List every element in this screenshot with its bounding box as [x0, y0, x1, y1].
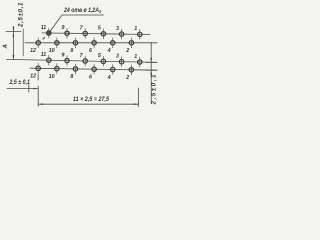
- leader line to hole 11: [49, 15, 62, 33]
- svg-text:1: 1: [134, 54, 137, 60]
- svg-text:11: 11: [41, 52, 47, 58]
- arrow down at row1 tick: [13, 27, 15, 32]
- arrow down right dim: [150, 58, 152, 63]
- svg-text:2,5 ± 0,1: 2,5 ± 0,1: [9, 80, 31, 86]
- dim 2.5 bottom-left line: [7, 88, 38, 90]
- hole 3 row1: [116, 26, 124, 39]
- hole 12 row2: [30, 38, 40, 55]
- hole 1 row1: [134, 26, 142, 39]
- row2 centerline: [25, 42, 157, 44]
- row3 centerline: [7, 59, 157, 62]
- row1 left extension tick: [6, 31, 21, 33]
- svg-text:А: А: [3, 44, 9, 49]
- svg-text:11 × 2,5 = 27,5: 11 × 2,5 = 27,5: [73, 96, 109, 103]
- hole 10 row2: [49, 38, 59, 55]
- hole 6 row4: [89, 64, 96, 81]
- arrow right bottom-left dim: [34, 88, 39, 90]
- right row4 extension tick: [146, 69, 158, 71]
- paper background: [0, 0, 159, 120]
- arrow right bottom dim: [134, 103, 139, 105]
- svg-text:2: 2: [125, 75, 129, 81]
- note shelf line: [62, 14, 104, 16]
- hole 1 row3: [134, 54, 142, 67]
- dim 2.5 top-left arrow line: [12, 27, 14, 32]
- hole 10 row4: [49, 63, 59, 80]
- hole 11 row3: [41, 52, 51, 65]
- hole 11 row1: [41, 25, 51, 38]
- arrow down A bottom: [13, 55, 15, 60]
- right dimension vertical line: [150, 42, 152, 103]
- svg-text:2,5±0,1: 2,5±0,1: [18, 2, 25, 28]
- svg-text:10: 10: [49, 74, 55, 80]
- hole 2 row2: [125, 38, 133, 55]
- svg-text:10: 10: [49, 48, 55, 54]
- hole 5 row1: [98, 26, 106, 39]
- bottom dimension line 27.5: [38, 103, 138, 105]
- svg-text:1: 1: [134, 26, 137, 32]
- arrowheads: [13, 27, 153, 105]
- svg-text:12: 12: [30, 74, 36, 80]
- svg-text:9: 9: [61, 52, 64, 58]
- row1 centerline: [42, 33, 150, 35]
- hole 5 row3: [98, 53, 106, 66]
- svg-text:9: 9: [61, 25, 64, 31]
- hole 4 row4: [107, 64, 115, 81]
- dimension A line: [12, 32, 14, 60]
- svg-text:12: 12: [30, 48, 36, 54]
- hole 3 row3: [116, 54, 124, 67]
- svg-text:8: 8: [70, 48, 73, 54]
- hole 8 row4: [70, 64, 77, 81]
- hole 9 row1: [61, 25, 69, 38]
- hole 4 row2: [107, 38, 115, 55]
- right row3 extension tick: [146, 61, 158, 63]
- stray ink mark: [43, 38, 45, 39]
- holes grid: [30, 25, 142, 81]
- hole 6 row2: [89, 38, 96, 55]
- hole 2 row4: [125, 65, 133, 82]
- right extension line col1: [138, 88, 140, 107]
- arrow left bottom dim: [38, 103, 43, 105]
- svg-text:11: 11: [41, 25, 47, 31]
- dim 2.5 bottom-left small tick: [28, 85, 30, 93]
- hole 12 row4: [30, 63, 40, 79]
- row4 centerline: [30, 68, 157, 70]
- svg-text:8: 8: [70, 74, 73, 80]
- svg-text:3: 3: [116, 26, 119, 32]
- left extension line col12 upper tick: [37, 74, 39, 80]
- hole 7 row1: [80, 25, 88, 38]
- texts: [3, 2, 157, 105]
- hole 8 row2: [70, 38, 77, 55]
- svg-text:4: 4: [107, 48, 111, 54]
- arrow up A top: [13, 32, 15, 37]
- arrow up right dim: [150, 70, 152, 75]
- hole 7 row3: [80, 53, 88, 66]
- svg-text:6: 6: [89, 48, 92, 54]
- vertical line left: [22, 29, 24, 56]
- svg-text:2: 2: [125, 48, 129, 54]
- hole 9 row3: [61, 52, 69, 65]
- svg-text:4: 4: [107, 75, 111, 81]
- left extension line col12: [37, 86, 39, 106]
- svg-text:3: 3: [116, 54, 119, 60]
- svg-text:24 отв ø 1,2А3: 24 отв ø 1,2А3: [63, 7, 101, 14]
- svg-text:6: 6: [89, 75, 92, 81]
